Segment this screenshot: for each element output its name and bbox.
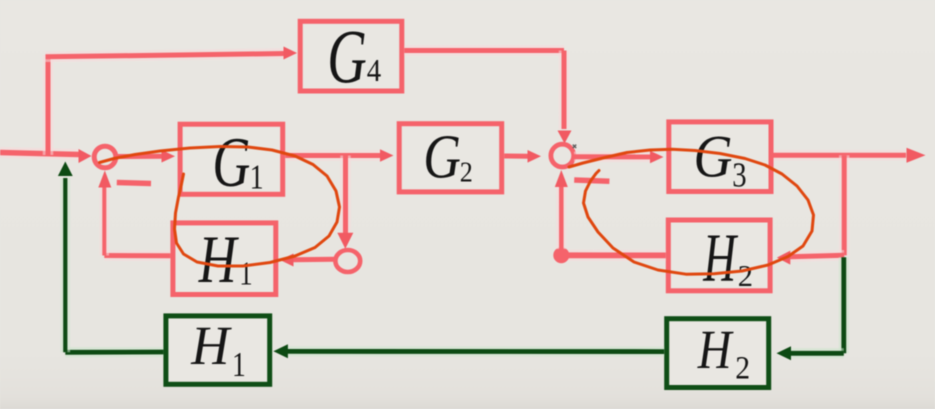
- small x mark next to S2: [573, 145, 576, 148]
- block G1: [180, 124, 283, 194]
- wire: S2 to G3: [574, 152, 650, 163]
- svg-text:H: H: [198, 223, 239, 298]
- wire: G3 output line C(s): [774, 150, 907, 161]
- arrowhead into G4: [284, 47, 298, 60]
- arrowhead into summing junction S1: [79, 149, 92, 163]
- wire: G4 output horizontal: [404, 45, 564, 56]
- wire: H2 output to junction dot: [568, 250, 666, 261]
- svg-text:G: G: [694, 124, 733, 190]
- arrowhead into H1 right side: [280, 254, 294, 267]
- svg-text:1: 1: [239, 255, 252, 293]
- wire: G2 to S2: [504, 154, 528, 159]
- wire: S1 to G1: [116, 154, 162, 159]
- wire: green branch down from output: [839, 257, 849, 353]
- wire: G4 output down to summing junction S2: [559, 51, 570, 130]
- summing junction S1: [94, 146, 116, 168]
- minus sign at S1: [117, 183, 151, 184]
- arrowhead green up at S1: [58, 162, 73, 177]
- wire: green H2 to green H1: [287, 346, 664, 357]
- svg-text:G: G: [212, 122, 250, 202]
- block H1 (inner feedback): [173, 223, 276, 295]
- block G4: [300, 21, 402, 91]
- wire: green feedback up to S1: [60, 178, 70, 352]
- arrowhead into G3: [650, 151, 664, 164]
- minus sign at S2: [574, 180, 609, 181]
- svg-text:G: G: [423, 123, 461, 191]
- block G3: [669, 122, 771, 192]
- svg-text:H: H: [190, 315, 232, 376]
- wire: output branch down: [839, 155, 850, 255]
- wire: H1 feedback up to S1: [100, 186, 110, 256]
- wire: horizontal feed to G4: [46, 54, 286, 57]
- svg-text:4: 4: [367, 53, 381, 89]
- label H2 outer: [697, 321, 750, 386]
- arrowhead down into takeoff point circle: [337, 233, 353, 249]
- label H2 inner: [703, 219, 754, 296]
- arrowhead down into summing junction S2: [558, 131, 572, 144]
- label G1: [212, 122, 263, 202]
- arrowhead into green H1: [273, 344, 288, 358]
- wire: input signal line R(s): [0, 153, 79, 155]
- arrowhead into H2 right side: [777, 251, 791, 265]
- arrowhead into green H2: [777, 346, 792, 360]
- wire: H1 output to left: [104, 250, 170, 261]
- arrowhead output: [907, 148, 926, 163]
- wire: pickoff to H1: [294, 257, 335, 263]
- annotation: orange loop around G1-H1 inner loop: [100, 147, 340, 267]
- wire: feedback into H2: [790, 255, 844, 257]
- arrowhead into G2: [380, 149, 394, 162]
- wire: takeoff branch down from G1 output: [340, 156, 351, 234]
- block H2 (outer feedback, green): [667, 319, 769, 388]
- wire: green H1 output left: [65, 347, 163, 358]
- label H1 inner: [198, 223, 253, 298]
- label H1 outer: [190, 315, 246, 384]
- arrowhead up into S2: [555, 170, 568, 187]
- label G2: [423, 123, 473, 191]
- annotation: orange loop around G3-H2 inner loop: [569, 149, 814, 274]
- block H2 (inner feedback): [668, 220, 770, 291]
- svg-text:H: H: [697, 321, 735, 381]
- svg-text:1: 1: [250, 158, 264, 197]
- label G4: [327, 16, 381, 100]
- wire: G1 to G2: [285, 150, 380, 161]
- arrowhead into summing junction S2: [528, 150, 542, 163]
- svg-text:2: 2: [735, 349, 750, 386]
- junction dot on S2 feedback: [553, 247, 569, 263]
- arrowhead up into S1: [98, 171, 111, 188]
- wire: green into H2 outer: [790, 348, 844, 358]
- svg-text:H: H: [703, 219, 739, 296]
- label G3: [694, 124, 747, 194]
- takeoff point circle (pickoff): [335, 250, 360, 272]
- svg-text:3: 3: [732, 155, 746, 194]
- arrowhead into G1: [162, 150, 176, 163]
- summing junction S2: [551, 144, 574, 167]
- svg-text:1: 1: [232, 345, 246, 384]
- wire: dot up to S2: [556, 185, 566, 249]
- block H1 (outer feedback, green): [166, 316, 270, 384]
- svg-text:2: 2: [738, 259, 753, 293]
- block G2: [399, 124, 502, 192]
- svg-text:G: G: [327, 16, 367, 100]
- svg-text:2: 2: [460, 155, 473, 188]
- wire: branch up to G4: [43, 55, 54, 155]
